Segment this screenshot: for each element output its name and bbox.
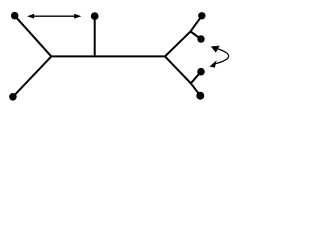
leaf dot E [197, 35, 204, 42]
leaf dot A [11, 12, 19, 20]
left arrowhead [27, 14, 34, 19]
branch N1 to leaf B (bottom-left) [13, 56, 51, 96]
curved arrow upper head [211, 46, 220, 53]
branch N1 to leaf A (top-left) [15, 16, 52, 57]
branch N2 to fork F1 and leaf D (top-right) [165, 16, 202, 57]
branch N2 to fork F2 and leaf F (bottom-right) [165, 56, 200, 95]
leaf dot F [196, 92, 204, 100]
leaf dot G [197, 68, 205, 76]
leaf dot B [9, 93, 17, 101]
stub F2 to leaf G [191, 72, 201, 84]
curved swap arrow arc (right) [215, 49, 229, 64]
backbone wire N1-N2 [51, 55, 165, 57]
leaf dot C [91, 12, 99, 20]
curved arrow lower head [210, 60, 217, 67]
branch backbone to leaf C (top-middle vertical) [94, 16, 96, 56]
stub F1 to leaf E [191, 32, 202, 40]
double-headed swap arrow shaft (top) [33, 15, 76, 17]
right arrowhead [74, 14, 81, 19]
leaf dot D [198, 12, 205, 19]
